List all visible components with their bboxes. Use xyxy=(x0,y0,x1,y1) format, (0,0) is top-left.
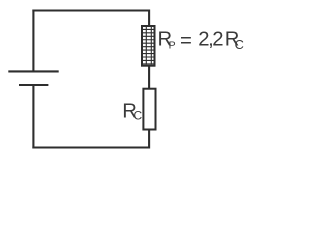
wire right top (to RP) xyxy=(148,10,150,27)
label: RC xyxy=(122,101,142,123)
svg-text:P: P xyxy=(169,40,176,52)
resistor RP (hatched body) xyxy=(142,26,155,66)
svg-text:=: = xyxy=(180,30,192,52)
svg-text:2,2: 2,2 xyxy=(198,29,223,51)
wire top (node between battery + and RP) xyxy=(32,9,150,11)
battery cell V1 xyxy=(8,71,58,85)
wire bottom (return node) xyxy=(32,146,150,148)
value label: RP = 2,2 RC xyxy=(158,29,244,52)
svg-text:C: C xyxy=(235,37,244,52)
wire below RC xyxy=(148,130,150,149)
resistor RC (open body) xyxy=(143,89,155,130)
wire left lower (battery - lead) xyxy=(32,86,34,149)
wire left upper (battery + lead) xyxy=(32,10,34,71)
svg-text:C: C xyxy=(134,109,143,123)
wire between RP and RC xyxy=(148,66,150,88)
